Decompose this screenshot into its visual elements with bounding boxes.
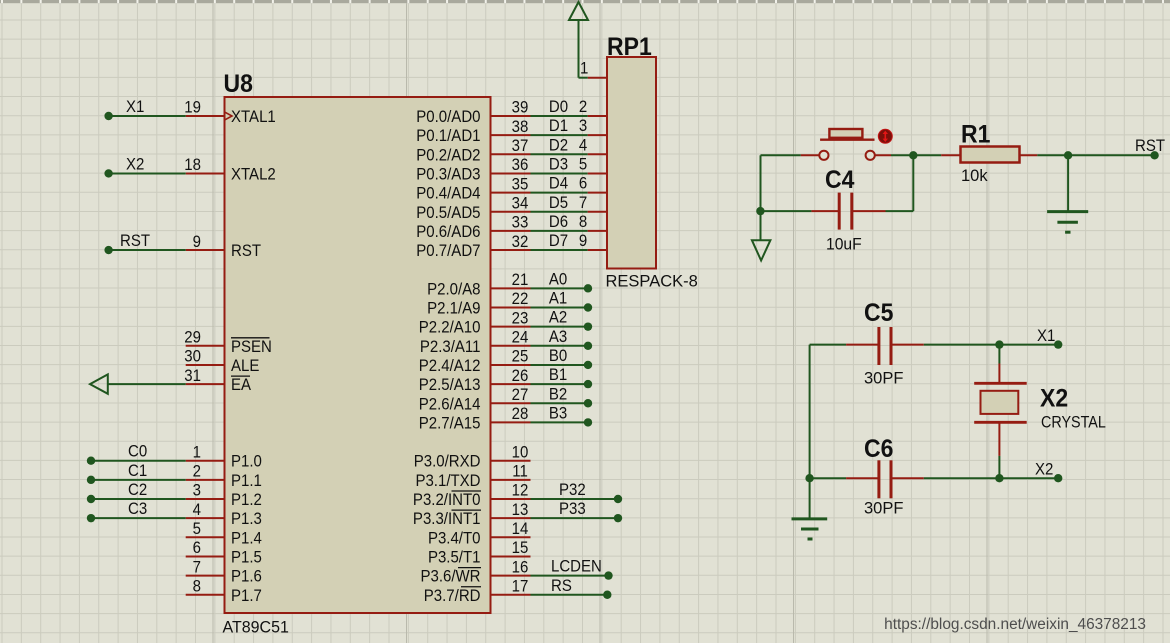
svg-text:D7: D7 [549,232,568,250]
svg-text:2: 2 [193,463,201,481]
svg-text:P0.2/AD2: P0.2/AD2 [416,147,480,165]
svg-text:5: 5 [579,156,588,174]
svg-text:A2: A2 [549,309,567,327]
svg-text:U8: U8 [224,70,253,98]
svg-text:19: 19 [184,99,201,117]
svg-text:A0: A0 [549,271,568,289]
svg-text:X2: X2 [126,156,144,174]
svg-text:3: 3 [579,118,588,136]
svg-text:14: 14 [512,520,529,538]
svg-text:B2: B2 [549,386,567,404]
svg-text:11: 11 [512,463,528,481]
svg-text:38: 38 [512,118,529,136]
svg-text:P0.6/AD6: P0.6/AD6 [416,223,480,241]
svg-text:C4: C4 [825,166,855,194]
svg-text:P2.0/A8: P2.0/A8 [427,281,481,299]
svg-text:P3.0/RXD: P3.0/RXD [414,453,481,471]
svg-text:P0.7/AD7: P0.7/AD7 [416,242,480,260]
svg-text:B1: B1 [549,367,567,385]
svg-text:22: 22 [512,291,529,309]
svg-text:EA: EA [231,377,251,395]
svg-text:C0: C0 [128,443,147,461]
svg-text:P0.4/AD4: P0.4/AD4 [416,185,480,203]
svg-text:P2.7/A15: P2.7/A15 [419,415,481,433]
svg-text:D4: D4 [549,175,568,193]
svg-text:P3.2/INT0: P3.2/INT0 [413,491,481,509]
svg-text:D6: D6 [549,213,568,231]
svg-text:1: 1 [580,60,588,78]
svg-text:P2.5/A13: P2.5/A13 [419,377,481,395]
svg-text:B3: B3 [549,405,568,423]
svg-text:P1.5: P1.5 [231,549,262,567]
svg-text:30PF: 30PF [864,500,903,518]
svg-text:6: 6 [193,540,202,558]
svg-text:30: 30 [184,348,201,366]
svg-text:5: 5 [193,520,202,538]
svg-text:P1.1: P1.1 [231,472,262,490]
svg-text:P2.4/A12: P2.4/A12 [419,357,481,375]
svg-text:27: 27 [512,386,529,404]
svg-text:7: 7 [579,194,587,212]
svg-text:P2.6/A14: P2.6/A14 [419,396,481,414]
svg-text:P3.7/RD: P3.7/RD [424,587,481,605]
svg-text:23: 23 [512,310,529,328]
svg-text:P1.3: P1.3 [231,511,262,529]
svg-text:X1: X1 [126,98,144,116]
svg-text:P0.3/AD3: P0.3/AD3 [416,166,480,184]
svg-text:32: 32 [512,233,529,251]
svg-text:21: 21 [512,271,529,289]
svg-text:PSEN: PSEN [231,338,272,356]
svg-text:10: 10 [512,444,529,462]
svg-text:C5: C5 [864,299,893,327]
svg-text:P1.6: P1.6 [231,568,262,586]
svg-text:RS: RS [551,577,572,595]
svg-text:1: 1 [193,444,201,462]
svg-text:P1.7: P1.7 [231,587,262,605]
svg-text:XTAL1: XTAL1 [231,108,276,126]
svg-text:33: 33 [512,214,529,232]
svg-text:37: 37 [512,137,529,155]
svg-text:35: 35 [512,176,529,194]
svg-text:4: 4 [193,501,202,519]
svg-text:39: 39 [512,99,529,117]
svg-text:P1.4: P1.4 [231,530,262,548]
svg-text:X2: X2 [1040,385,1068,413]
svg-text:15: 15 [512,540,529,558]
svg-text:36: 36 [512,157,529,175]
svg-text:AT89C51: AT89C51 [223,618,289,636]
svg-text:13: 13 [512,501,529,519]
svg-text:ALE: ALE [231,357,259,375]
svg-text:B0: B0 [549,347,568,365]
svg-text:10uF: 10uF [826,235,862,253]
svg-text:C3: C3 [128,501,147,519]
svg-text:A1: A1 [549,290,567,308]
svg-text:RST: RST [231,242,261,260]
svg-text:3: 3 [193,482,202,500]
svg-text:https://blog.csdn.net/weixin_4: https://blog.csdn.net/weixin_46378213 [884,616,1146,633]
svg-text:2: 2 [579,98,587,116]
svg-text:P3.6/WR: P3.6/WR [420,568,480,586]
svg-text:C1: C1 [128,462,147,480]
svg-text:X2: X2 [1035,461,1053,479]
svg-text:R1: R1 [961,121,990,149]
svg-text:26: 26 [512,367,529,385]
svg-text:24: 24 [512,329,529,347]
svg-text:P3.1/TXD: P3.1/TXD [415,472,480,490]
svg-text:12: 12 [512,482,529,500]
svg-text:7: 7 [193,559,201,577]
svg-text:4: 4 [579,137,588,155]
svg-text:P0.0/AD0: P0.0/AD0 [416,108,480,126]
svg-text:RST: RST [120,232,150,250]
svg-text:34: 34 [512,195,529,213]
svg-text:CRYSTAL: CRYSTAL [1041,414,1106,432]
svg-text:30PF: 30PF [864,370,903,388]
svg-text:D3: D3 [549,156,568,174]
svg-text:P2.1/A9: P2.1/A9 [427,300,481,318]
svg-text:8: 8 [579,213,588,231]
svg-text:9: 9 [193,233,202,251]
svg-text:D1: D1 [549,118,568,136]
svg-text:P3.4/T0: P3.4/T0 [428,530,481,548]
svg-text:P2.3/A11: P2.3/A11 [420,338,481,356]
svg-text:P32: P32 [559,481,586,499]
svg-text:9: 9 [579,232,588,250]
svg-text:P3.5/T1: P3.5/T1 [428,549,481,567]
svg-text:31: 31 [184,367,201,385]
svg-text:17: 17 [512,578,529,596]
svg-text:XTAL2: XTAL2 [231,166,276,184]
svg-text:RST: RST [1135,137,1165,155]
svg-text:P1.0: P1.0 [231,453,262,471]
svg-text:P1.2: P1.2 [231,491,262,509]
svg-text:P0.5/AD5: P0.5/AD5 [416,204,480,222]
svg-text:C2: C2 [128,481,147,499]
svg-text:X1: X1 [1037,327,1055,345]
svg-text:10k: 10k [961,167,988,185]
svg-text:C6: C6 [864,435,893,463]
svg-text:RP1: RP1 [607,33,652,61]
svg-text:8: 8 [193,578,202,596]
svg-text:D0: D0 [549,98,568,116]
svg-text:RESPACK-8: RESPACK-8 [606,273,698,291]
svg-text:A3: A3 [549,328,568,346]
svg-text:D5: D5 [549,194,568,212]
svg-text:P2.2/A10: P2.2/A10 [419,319,481,337]
svg-text:P0.1/AD1: P0.1/AD1 [416,128,480,146]
svg-text:25: 25 [512,348,529,366]
svg-text:28: 28 [512,406,529,424]
svg-text:D2: D2 [549,137,568,155]
svg-text:P3.3/INT1: P3.3/INT1 [413,511,481,529]
svg-text:29: 29 [184,329,201,347]
svg-text:P33: P33 [559,501,586,519]
svg-text:6: 6 [579,175,588,193]
svg-text:18: 18 [184,157,201,175]
svg-text:LCDEN: LCDEN [551,558,602,576]
svg-text:16: 16 [512,559,529,577]
